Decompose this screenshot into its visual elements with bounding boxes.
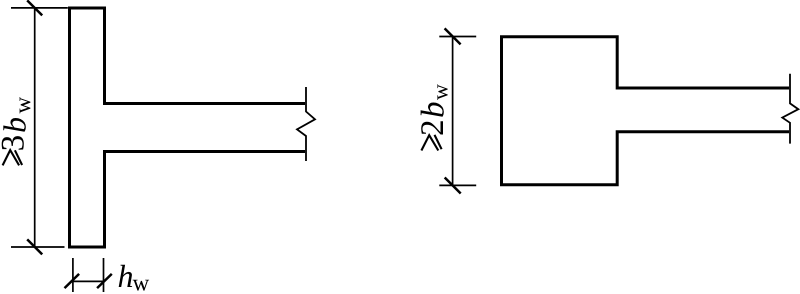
break line (right wall right end) [782, 74, 798, 144]
h_w tick right [97, 274, 112, 288]
h_w tick left [65, 274, 80, 288]
label "3" of >=3bw [2, 136, 24, 150]
wall end column section outline (right figure) [502, 37, 790, 185]
tick top (right dimension) [445, 28, 461, 44]
label ">=" glyph of >=3bw [3, 150, 23, 165]
break line (left wall right end) [297, 87, 315, 161]
label subscript "w" of h_w [133, 280, 150, 291]
wall flange section T-shape outline (left figure) [70, 8, 306, 247]
label subscript "w" of >=2bw [437, 84, 447, 100]
dimension line (left, vertical) [34, 8, 36, 247]
label "b" of >=2bw [421, 103, 444, 117]
label "2" of >=2bw [421, 121, 443, 134]
tick top (left dimension) [27, 0, 42, 15]
tick bottom (left dimension) [27, 239, 42, 254]
dimension line (right, vertical) [452, 37, 454, 186]
h_w dimension: extension line right [103, 258, 105, 292]
extension line top (left figure) [11, 7, 68, 9]
h_w dimension line [73, 280, 104, 282]
label subscript "w" of >=3bw [20, 97, 31, 114]
label "b" of >=3bw [3, 118, 26, 132]
extension line top (right figure) [439, 36, 476, 38]
h_w dimension: extension line left [72, 258, 74, 292]
label ">=" glyph of >=2bw [421, 135, 441, 151]
extension line bottom (right figure) [439, 184, 476, 186]
tick bottom (right dimension) [445, 178, 461, 194]
label "h" of h_w [119, 265, 133, 287]
extension line bottom (left figure) [11, 246, 65, 248]
